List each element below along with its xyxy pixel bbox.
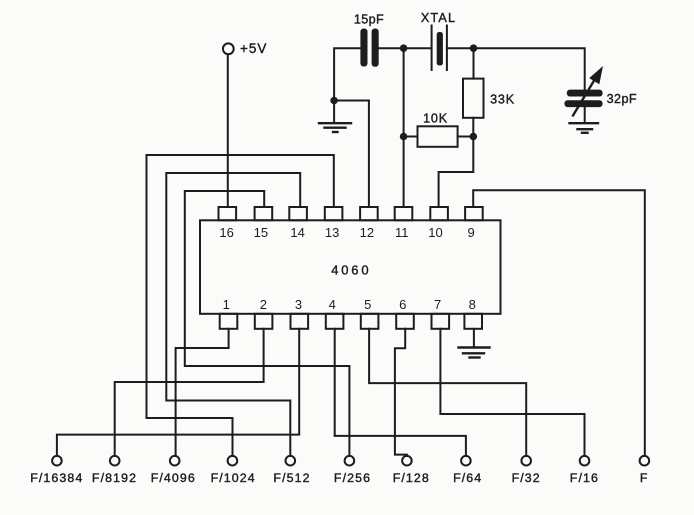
svg-text:4060: 4060 — [331, 262, 371, 277]
svg-text:15: 15 — [254, 225, 268, 240]
svg-text:1: 1 — [223, 297, 230, 312]
svg-text:33K: 33K — [490, 93, 515, 107]
bottom pin numbers — [223, 297, 476, 312]
resistor 33K — [463, 79, 515, 118]
junction dot 10K left — [401, 134, 407, 140]
junction dot 33K top — [471, 45, 477, 51]
wire pin 3 to F/16384 — [57, 329, 299, 456]
terminal F/64 — [453, 456, 482, 485]
terminal F/256 — [334, 456, 371, 485]
svg-text:14: 14 — [290, 225, 304, 240]
variable capacitor 32pF — [564, 66, 637, 116]
wire pin 13 bracket to F/1024 — [147, 155, 334, 456]
wire +5V to pin 16 — [227, 54, 229, 207]
wire pin 15 bracket to F/256 — [185, 191, 350, 456]
crystal XTAL — [421, 11, 456, 70]
svg-text:5: 5 — [364, 297, 371, 312]
pin 7 box — [432, 314, 450, 329]
svg-text:F/128: F/128 — [393, 471, 430, 485]
junction dot pin 11 node — [401, 45, 407, 51]
wire junction to 33K top — [473, 48, 475, 78]
junction dot 10K right — [471, 134, 477, 140]
pin 12 box — [360, 207, 378, 220]
svg-text:F/8192: F/8192 — [92, 471, 137, 485]
svg-text:11: 11 — [395, 225, 409, 240]
svg-text:F/16: F/16 — [570, 471, 599, 485]
svg-text:12: 12 — [360, 225, 374, 240]
svg-text:10K: 10K — [423, 112, 448, 126]
junction dot ground/pin12 — [331, 98, 337, 104]
wire 10K right lead — [458, 136, 474, 138]
terminal F/512 — [273, 456, 310, 485]
terminal F/16 — [570, 456, 599, 485]
wire pin 4 to F/64 — [335, 329, 466, 456]
wire pin 2 to F/8192 — [115, 329, 264, 456]
pin 6 box — [396, 314, 414, 329]
pin 16 box — [219, 207, 237, 220]
terminal F/8192 — [92, 456, 137, 485]
wire ground junction to pin 12 — [334, 101, 369, 208]
svg-text:9: 9 — [467, 225, 474, 240]
terminal F/128 — [393, 456, 430, 485]
pin 1 box — [220, 314, 238, 329]
ground below pin 8 — [459, 348, 490, 358]
terminal F/16384 — [30, 456, 83, 485]
svg-text:3: 3 — [295, 297, 302, 312]
wire oscillator left to 15pF and ground — [334, 48, 361, 122]
wire 33K bottom to pin 10 — [439, 118, 474, 207]
svg-text:XTAL: XTAL — [421, 11, 456, 25]
ground near 32pF — [570, 123, 599, 133]
svg-text:10: 10 — [428, 225, 442, 240]
wire 32pF to ground — [584, 107, 586, 122]
svg-text:2: 2 — [260, 297, 267, 312]
ground near 15pF — [319, 123, 351, 132]
svg-text:+5V: +5V — [240, 41, 267, 56]
terminal F — [640, 456, 650, 485]
svg-text:F/32: F/32 — [512, 471, 541, 485]
svg-text:6: 6 — [399, 297, 406, 312]
pin 15 box — [255, 207, 273, 220]
pin 14 box — [289, 207, 307, 220]
terminal F/1024 — [211, 456, 256, 485]
wire 15pF to XTAL — [379, 47, 431, 49]
svg-text:8: 8 — [469, 297, 476, 312]
svg-text:F/16384: F/16384 — [30, 471, 83, 485]
wire pin 11 node down to pin 11 — [403, 48, 405, 207]
wire pin 8 to ground — [473, 329, 475, 347]
pin 13 box — [325, 207, 343, 220]
svg-text:F/64: F/64 — [453, 471, 482, 485]
wire pin 7 to F/16 — [440, 329, 584, 456]
svg-text:F/1024: F/1024 — [211, 471, 256, 485]
pin 9 box — [465, 207, 483, 220]
capacitor 15pF — [354, 13, 384, 67]
svg-text:F/512: F/512 — [273, 471, 310, 485]
pin 3 box — [291, 314, 309, 329]
wire pin 9 to F terminal — [473, 190, 645, 456]
svg-text:16: 16 — [219, 225, 233, 240]
wire XTAL to 32pF corner — [447, 48, 585, 89]
pin 10 box — [430, 207, 448, 220]
wire 10K left lead — [404, 136, 418, 138]
pin 11 box — [395, 207, 413, 220]
pin 4 box — [326, 314, 344, 329]
terminal F/4096 — [151, 456, 196, 485]
top pin numbers — [219, 225, 474, 240]
wire pin 1 to F/4096 — [176, 329, 229, 456]
pin 8 box — [464, 314, 482, 329]
svg-text:F/256: F/256 — [334, 471, 371, 485]
terminal F/32 — [512, 456, 541, 485]
wire pin 14 bracket to F/512 — [166, 173, 300, 456]
svg-text:4: 4 — [329, 297, 336, 312]
resistor 10K — [418, 112, 458, 147]
svg-text:F/4096: F/4096 — [151, 471, 196, 485]
svg-text:32pF: 32pF — [607, 92, 637, 106]
wire pin 6 to F/128 — [395, 329, 407, 456]
svg-text:13: 13 — [325, 225, 339, 240]
svg-text:15pF: 15pF — [354, 13, 384, 27]
wire pin 5 to F/32 — [369, 329, 526, 456]
svg-text:F: F — [640, 471, 649, 485]
power terminal +5V — [223, 41, 268, 56]
svg-text:7: 7 — [434, 297, 441, 312]
pin 2 box — [255, 314, 273, 329]
pin 5 box — [361, 314, 379, 329]
op IC U1 4060 body — [200, 220, 501, 313]
